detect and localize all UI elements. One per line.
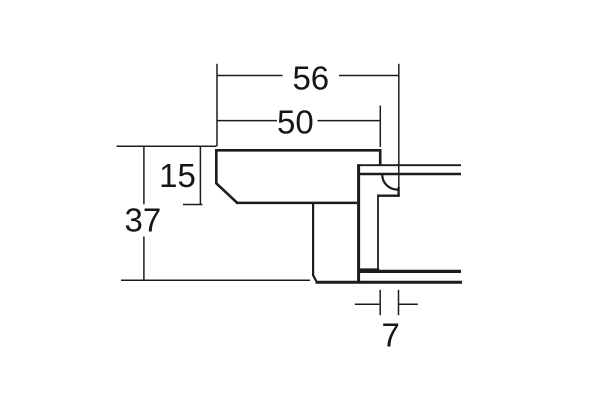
svg-text:15: 15	[159, 157, 196, 194]
svg-text:56: 56	[292, 60, 329, 97]
svg-text:50: 50	[277, 103, 314, 140]
svg-text:37: 37	[125, 201, 162, 238]
svg-text:7: 7	[382, 317, 400, 354]
